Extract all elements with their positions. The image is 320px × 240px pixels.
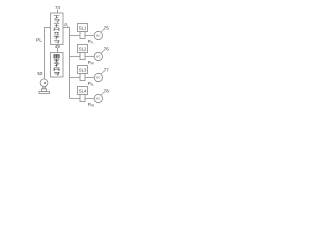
svg-text:PL: PL <box>36 38 42 44</box>
svg-text:WC: WC <box>96 34 101 38</box>
svg-text:RL: RL <box>91 83 95 87</box>
svg-text:SL1: SL1 <box>79 25 87 30</box>
svg-text:SL2: SL2 <box>79 46 87 51</box>
svg-text:50: 50 <box>37 71 43 76</box>
svg-text:WC: WC <box>96 76 101 80</box>
svg-text:75: 75 <box>104 26 110 31</box>
svg-text:FR: FR <box>91 62 95 66</box>
svg-text:77: 77 <box>104 68 110 73</box>
svg-text:RR: RR <box>91 104 95 108</box>
svg-text:76: 76 <box>104 47 110 52</box>
svg-text:SL3: SL3 <box>79 67 87 72</box>
svg-text:WC: WC <box>96 97 101 101</box>
svg-text:74: 74 <box>55 5 61 10</box>
svg-text:78: 78 <box>104 89 110 94</box>
svg-text:WC: WC <box>96 55 101 59</box>
svg-text:49: 49 <box>55 44 61 49</box>
svg-text:SL4: SL4 <box>79 88 87 93</box>
